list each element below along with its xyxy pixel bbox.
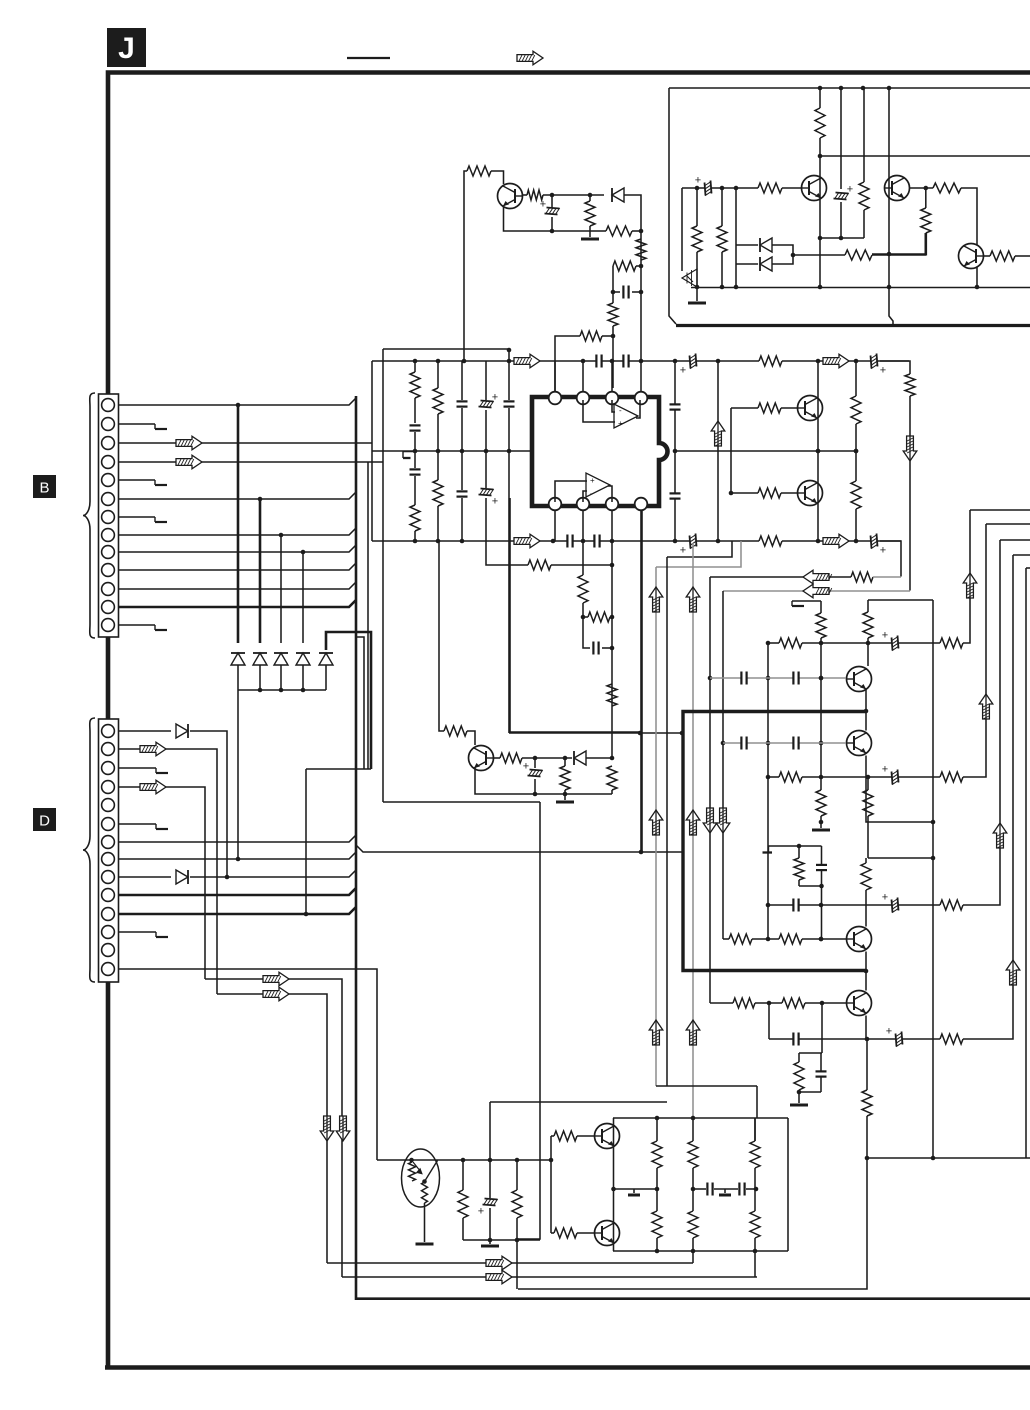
junction 583/617 (581, 615, 586, 620)
wire row292 a (613, 291, 620, 293)
polarized cap row643 (892, 636, 899, 651)
wire TR col722 a (721, 188, 723, 226)
wire QL2 collector (865, 711, 867, 731)
resistor RC2 R (794, 1062, 804, 1090)
wire row1158 (867, 1157, 1030, 1159)
wire row1277 (342, 1276, 757, 1278)
flow arrow col723 (716, 808, 730, 833)
wire row601L (792, 600, 821, 602)
wire col868 858b (867, 816, 869, 858)
junction row541 x612 (610, 539, 615, 544)
wire col856 a (855, 361, 857, 396)
wire TR col925 thick (924, 233, 927, 256)
junction 697/287 (695, 285, 700, 290)
wire QR2 base b (781, 492, 798, 494)
wire row769 (306, 768, 371, 770)
svg-text:+: + (492, 496, 498, 508)
bus row541 (372, 540, 759, 542)
capacitor col462 l (457, 492, 468, 496)
wire row643 (768, 642, 779, 644)
wire QR2 base row (731, 492, 758, 494)
flow arrow col1013 (1006, 960, 1020, 985)
flow arrow col1000 (993, 823, 1007, 848)
capacitor row1039 (794, 1033, 798, 1046)
junction 612/617 (610, 615, 615, 620)
wire col818 (817, 361, 819, 541)
connector B pin 4 (102, 456, 115, 469)
wire inner jog (356, 637, 364, 769)
polarized cap row541 r (871, 534, 878, 549)
wire row617 gap (583, 616, 588, 618)
junction 821/822 (819, 820, 824, 825)
wire col486 u (485, 361, 487, 400)
connector D brace (83, 718, 95, 982)
open stub D6 (155, 824, 157, 829)
resistor col415 l (410, 505, 420, 531)
clamp diode at x303 (296, 653, 310, 665)
junction 722/287 (720, 285, 725, 290)
connector B pin 11 (102, 583, 115, 596)
wire corner row555 (1013, 554, 1030, 556)
wire D2 (118, 749, 217, 994)
junction 977/287 (975, 285, 980, 290)
resistor TR Q3 out (990, 251, 1015, 261)
wire diode mid b (586, 757, 612, 759)
wire row1003 b (805, 1002, 846, 1004)
junction 682/733 (680, 731, 685, 736)
resistor col590 (585, 201, 595, 226)
connector D pin 8 (102, 853, 115, 866)
clamp diode at x238 (231, 653, 245, 665)
svg-text:+: + (882, 764, 888, 776)
junction 769/1003 (767, 1001, 772, 1006)
polarized cap row541 (690, 534, 697, 549)
flow arrow col710 (703, 808, 717, 833)
connector B pin 7 (102, 511, 115, 524)
top tick line (347, 57, 390, 59)
wire col372 (371, 361, 373, 541)
connector D pin 11 (102, 908, 115, 921)
wire col821 long (820, 638, 822, 790)
capacitor row743 a (742, 737, 746, 750)
ground RC2 (790, 1104, 808, 1107)
junction row361 x583 (581, 359, 586, 364)
svg-text:+: + (880, 365, 886, 377)
junction 565/794 (563, 792, 568, 797)
wire row336 (555, 336, 580, 392)
svg-text:+: + (523, 761, 529, 773)
wire col656 gray (655, 567, 657, 1086)
open mark 788 (791, 601, 793, 606)
junction oval B (422, 1179, 427, 1184)
capacitor row541 b (595, 535, 599, 548)
polarized cap col490 (483, 1199, 498, 1206)
wire B8 to bus (118, 528, 356, 535)
resistor TR col864 (859, 182, 869, 210)
junction 866/711 (864, 709, 869, 714)
hatched triangle symbol (682, 269, 697, 287)
polarized cap TR col841 (834, 193, 849, 200)
wire row577 (710, 576, 851, 578)
wire RC r stub (798, 846, 800, 858)
svg-text:-: - (619, 406, 622, 415)
polarized cap row905 (892, 898, 899, 913)
junction diode bus 260 (258, 688, 263, 693)
wire row643 m (802, 642, 940, 644)
junction 723/743 (721, 741, 726, 746)
junction TR top bus 841 (839, 86, 844, 91)
wire col710 (709, 577, 711, 1003)
main bus vertical (355, 396, 358, 1300)
wire col693 l (692, 1238, 694, 1251)
diode TR lower (760, 257, 772, 271)
wire row266 end (636, 265, 641, 267)
wire D11 to bus (118, 907, 356, 914)
junction 612/648 (610, 646, 615, 651)
svg-text:+: + (882, 630, 888, 642)
wire row231 gap (590, 230, 606, 232)
capacitor row905 (794, 899, 798, 912)
wire col856 b (855, 424, 857, 481)
wire TR to Q3 (961, 188, 977, 245)
wire pin583b stub (582, 510, 584, 541)
wire Qmid emitter (475, 768, 612, 794)
wire col551 (550, 1136, 552, 1233)
wire opamp2 in2 (583, 491, 587, 502)
junction 820/287 (818, 285, 823, 290)
IC pin bottom x583 (577, 498, 590, 511)
flow arrow col970 (963, 573, 977, 598)
wire D1b (190, 731, 227, 877)
emitter line in oval (425, 1161, 438, 1182)
resistor col565 768-789 (560, 766, 570, 790)
junction 490/1240 (488, 1238, 493, 1243)
signal arrow row541 b (823, 534, 849, 548)
wire Q6 base (577, 1232, 595, 1234)
wire col590 b (589, 226, 591, 231)
junction 868/777 (866, 775, 871, 780)
wire D1 (118, 730, 171, 732)
polarized cap row777 (892, 770, 899, 785)
junction row451 x486 (484, 449, 489, 454)
junction TR top bus 820 (818, 86, 823, 91)
wire col866 858 (865, 858, 867, 863)
junction 535/794 (533, 792, 538, 797)
wire Q-top emitter (504, 206, 591, 231)
wire opamp1 out (636, 400, 640, 418)
signal arrow D2 (140, 742, 166, 756)
junction 820/156 (818, 154, 823, 159)
wire TR Q3 emitter (976, 267, 978, 287)
junction 799/846 (797, 844, 802, 849)
junction 693/1118 (691, 1116, 696, 1121)
wire RC2 bottom (799, 1091, 821, 1093)
polarized cap row361 r (871, 354, 878, 369)
ground col821 (812, 829, 830, 832)
junction 818/452 (816, 449, 821, 454)
resistor Qmid out (500, 753, 522, 763)
IC pin top x641 (635, 392, 648, 405)
wire pin612b stub (611, 510, 613, 541)
wire TR col841 (840, 88, 842, 189)
resistor col693 lower (688, 1211, 698, 1238)
junction row361 x438 (436, 359, 441, 364)
junction 822/1003 (820, 1001, 825, 1006)
connector D pin 1 (102, 725, 115, 738)
junction row1160 x517 (515, 1158, 520, 1163)
resistor row777 (779, 772, 802, 782)
wire row1086 (656, 1085, 757, 1087)
wire B6 to bus (118, 492, 356, 499)
resistor row939 a (729, 934, 752, 944)
ground mid (556, 801, 574, 804)
wire row1251 (613, 1250, 788, 1252)
junction 657/1118 (655, 1116, 660, 1121)
capacitor row292 (624, 286, 628, 299)
open stub B13 (154, 625, 156, 630)
capacitor RC C (816, 865, 827, 869)
junction 866/971 (864, 969, 869, 974)
junction 639/733 (638, 731, 643, 736)
wire TR row255 (793, 254, 845, 256)
junction 612/758 (610, 756, 615, 761)
resistor Q6 base (554, 1228, 577, 1238)
row733 thick (509, 731, 641, 734)
diode TR upper (760, 238, 772, 252)
wire diode to col641 (624, 195, 641, 361)
wire col821 887-939 (821, 886, 823, 939)
junction 535/758 (533, 756, 538, 761)
wire row846 (769, 845, 822, 847)
transistor QL3 (847, 927, 872, 952)
wire row1136 (551, 1135, 554, 1137)
junction row361 x415 (413, 359, 418, 364)
wire TR col820 mid (819, 138, 821, 156)
connector B pin 5 (102, 474, 115, 487)
resistor row336 (580, 331, 602, 341)
wire col583 b (582, 603, 584, 617)
resistor col856 u (851, 396, 861, 424)
wire opamp2 out (608, 486, 612, 502)
thermal compound component (402, 1149, 440, 1207)
wire TR col864 top (863, 88, 865, 182)
resistor Qmid base (444, 726, 467, 736)
junction D11/col306 (304, 912, 309, 917)
wire TR col722 b (721, 252, 723, 287)
wire diode 281 to bus (280, 665, 282, 690)
wire corner row510 (970, 509, 1030, 511)
wire col509 u (508, 361, 510, 400)
capacitor row361 b (624, 355, 628, 368)
junction D8/col238 (236, 857, 241, 862)
junction row1251 x755 (753, 1249, 758, 1254)
resistor Q5 base (554, 1131, 577, 1141)
connector D pin 4 (102, 781, 115, 794)
wire row1118 (613, 1117, 788, 1119)
ground row1189 a (628, 1194, 640, 1197)
junction row541 x856 (854, 539, 859, 544)
wire Qmid out (494, 757, 501, 759)
wire TR base row (682, 187, 758, 189)
junction 793/255 (791, 253, 796, 258)
transistor QL4 (847, 991, 872, 1016)
wire TR diode1 row (736, 244, 758, 246)
resistor col693 upper (688, 1141, 698, 1168)
capacitor col675 u (670, 405, 681, 409)
wire Q-top base feed (464, 171, 467, 361)
junction 613/336 (611, 334, 616, 339)
junction 768/939 (766, 937, 771, 942)
connector D body (99, 719, 119, 982)
wire row979 (205, 979, 342, 1277)
wire TR col682 (681, 188, 683, 271)
svg-text:-: - (590, 489, 593, 498)
transistor Q5 (595, 1124, 620, 1149)
wire col667 (666, 557, 668, 1086)
wire TR col925 a (925, 188, 927, 208)
signal arrow row994 (263, 987, 289, 1001)
svg-text:+: + (478, 1206, 484, 1218)
wire TR base to Q (782, 187, 802, 189)
wire col238 lower (237, 690, 239, 859)
wire pin641 stub (640, 361, 642, 392)
wire gnd590 (589, 231, 591, 237)
diode top mid (612, 188, 624, 202)
wire col540 (518, 802, 540, 1239)
junction 693/1189 (691, 1187, 696, 1192)
junction 841/238 (839, 236, 844, 241)
wire opamp1 in (612, 400, 615, 412)
svg-text:J: J (118, 32, 135, 65)
junction 552/195 (550, 193, 555, 198)
junction diode bus 303 (301, 688, 306, 693)
resistor col657 upper (652, 1141, 662, 1168)
flow arrow col656 b (649, 810, 663, 835)
bus row541 b (782, 540, 901, 542)
wire col612 b2 (611, 790, 613, 794)
wire TR col841 low (840, 202, 842, 238)
junction row361 x856 (854, 359, 859, 364)
wire col517 a (516, 1160, 518, 1190)
ground oval (416, 1243, 434, 1246)
wire pin555 stub (554, 361, 556, 392)
junction row541 x553 (551, 539, 556, 544)
wire row905 r (963, 540, 1000, 905)
resistor row643 (779, 638, 802, 648)
junction 821/905 (819, 903, 824, 908)
wire triangle to row287 (696, 286, 698, 289)
transistor TR Q1 (802, 176, 827, 201)
wire row600 (868, 599, 933, 601)
wire B7 stub (118, 516, 155, 518)
wire QL4 emitter (865, 1016, 867, 1040)
polarized cap 535 (528, 770, 543, 777)
signal arrow row361 (514, 354, 540, 368)
capacitor row678 b (794, 672, 798, 685)
connector D pin 7 (102, 836, 115, 849)
junction 821/939 (819, 937, 824, 942)
wire col490 link (489, 1102, 491, 1160)
wire col731 (730, 408, 732, 493)
wire cap535 a (534, 758, 536, 768)
junction 820/939 (819, 937, 824, 942)
junction 517/1240 (515, 1238, 520, 1243)
connector D pin 12 (102, 926, 115, 939)
wire col438 m (437, 414, 439, 480)
svg-text:+: + (680, 365, 686, 377)
wire col462 m (461, 408, 463, 490)
junction 768/777 (766, 775, 771, 780)
junction 933/858 (931, 856, 936, 861)
resistor col415 u (410, 372, 420, 398)
wire diode 303 to bus (302, 665, 304, 690)
junction 925/188 (924, 186, 929, 191)
resistor col583 577-606 (578, 575, 588, 603)
junction row361 x612 (610, 359, 615, 364)
junction 856/451 (854, 449, 859, 454)
wire diode col 238 upper (237, 405, 240, 643)
transistor Q6 (595, 1221, 620, 1246)
capacitor row1189 b (740, 1183, 744, 1196)
IC pin bottom x641 (635, 498, 648, 511)
wire row777 r (963, 524, 986, 777)
wire oval stem (424, 1203, 426, 1242)
resistor col867 1093-1116 (862, 1090, 872, 1116)
junction 821/643 (819, 641, 824, 646)
open stub B5 (154, 480, 156, 485)
top-right box outline (669, 88, 676, 324)
op-amp A1 (614, 404, 638, 428)
col509 thick lower (508, 498, 511, 733)
polarized cap col486 l (479, 489, 494, 496)
open stub D3 (155, 768, 157, 773)
connector B pin 1 (102, 399, 115, 412)
wire row336b (602, 335, 613, 337)
junction 756/1189 (754, 1187, 759, 1192)
wire D9a (118, 876, 171, 878)
wire row1189 seg b1 (693, 1188, 706, 1190)
wire diode col 260 upper (259, 499, 262, 643)
wire row939 b (802, 938, 846, 940)
junction 590/195 (588, 193, 593, 198)
wire col933 (932, 600, 934, 1158)
junction row451 x438 (436, 449, 441, 454)
wire cap535 b (534, 779, 536, 794)
wire TR row255 thick (872, 253, 926, 256)
wire col486 l (485, 498, 487, 541)
sheet label J box (107, 28, 146, 67)
junction 722/188 (720, 186, 725, 191)
wire col415 l3 (414, 531, 416, 541)
junction row541 x718 (716, 539, 721, 544)
wire B13 stub (118, 624, 155, 626)
wire col613 c (612, 326, 614, 388)
row349 (383, 348, 509, 350)
wire col657 u (656, 1118, 658, 1141)
junction 768/678 (766, 676, 771, 681)
junction row361 x718 (716, 359, 721, 364)
wire TR row238 (820, 237, 864, 239)
junction 768/905 (766, 903, 771, 908)
IC pin top x555 (549, 392, 562, 405)
wire col415 u (414, 361, 416, 372)
wire diode 326 to bus (325, 665, 327, 690)
capacitor row361 a (597, 355, 601, 368)
transistor QR1 (798, 396, 823, 421)
wire B5 stub (118, 479, 155, 481)
wire col693 m (692, 1168, 694, 1211)
transistor QL2 (847, 731, 872, 756)
